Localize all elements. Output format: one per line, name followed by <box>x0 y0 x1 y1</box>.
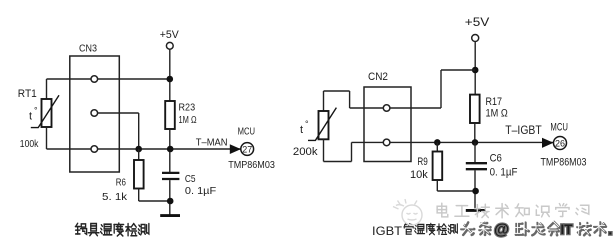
wire R9 top lead <box>436 142 438 151</box>
capacitor C5 <box>162 172 179 174</box>
ground (left) <box>160 214 180 217</box>
resistor R6 <box>134 160 144 189</box>
svg-text:@: @ <box>494 222 509 239</box>
junction T-IGBT node <box>472 139 479 146</box>
resistor R17 <box>470 95 480 123</box>
wire R17 bottom lead <box>474 123 476 142</box>
MCU pin circle 26 <box>554 137 567 150</box>
svg-text:0. 1µF: 0. 1µF <box>490 167 518 179</box>
wire R9 to ground node <box>437 190 475 192</box>
thermistor diagonal stroke (right) <box>308 108 336 141</box>
wire pin2 down to row3 <box>138 113 140 149</box>
svg-text:t: t <box>29 111 32 123</box>
junction +5V node left <box>167 76 174 83</box>
wire row1 left <box>47 78 170 80</box>
pin CN2-2 <box>383 139 390 146</box>
svg-text:MCU: MCU <box>238 126 255 138</box>
wire thermistor top jog <box>324 90 350 92</box>
wire RT1 bottom lead <box>46 127 48 149</box>
wire CN3 pin2 stub <box>94 112 138 114</box>
junction R6 top node <box>135 146 142 153</box>
svg-text:C5: C5 <box>185 173 196 185</box>
wire R6 top lead <box>138 149 140 160</box>
connector CN3 <box>70 56 120 172</box>
capacitor C6 <box>466 162 487 164</box>
MCU pin circle 27 <box>241 143 254 156</box>
pin CN3-2 <box>91 110 98 117</box>
svg-text:CN3: CN3 <box>79 43 97 55</box>
pin CN2-1 <box>383 105 390 112</box>
wire bottom jog <box>324 161 352 163</box>
svg-text:IT: IT <box>561 222 574 237</box>
+5V terminal circle (left) <box>166 42 173 49</box>
junction T-MAN node <box>167 146 174 153</box>
+5V terminal circle (right) <box>472 35 479 42</box>
watermark logo face <box>393 199 422 225</box>
pin CN3-3 <box>91 146 98 153</box>
svg-text:TMP86M03: TMP86M03 <box>228 160 275 171</box>
svg-text:100k: 100k <box>20 138 39 150</box>
wire thermistor top lead <box>323 91 325 111</box>
ground (right) <box>466 209 486 212</box>
svg-text:TMP86M03: TMP86M03 <box>541 156 587 168</box>
svg-text:1M Ω: 1M Ω <box>486 107 508 119</box>
wire C6 top lead <box>474 142 476 163</box>
svg-text:R23: R23 <box>179 102 196 114</box>
svg-text:CN2: CN2 <box>368 71 388 83</box>
svg-text:°: ° <box>34 106 38 116</box>
wire +5V to R17 <box>474 42 476 95</box>
svg-text:R6: R6 <box>116 177 126 189</box>
watermark text line2 (embossed) <box>461 222 474 234</box>
wire row1 right <box>350 107 441 109</box>
resistor R23 <box>165 101 175 129</box>
svg-text:T–MAN: T–MAN <box>196 137 228 149</box>
svg-text:°: ° <box>305 119 309 129</box>
svg-text:1M Ω: 1M Ω <box>179 114 197 126</box>
wire thermistor bottom lead <box>323 139 325 161</box>
svg-text:R9: R9 <box>417 156 427 168</box>
junction R9 top node <box>434 139 441 146</box>
caption: pot temperature detection (CJK) <box>75 223 86 234</box>
connector CN2 <box>364 87 411 162</box>
wire +5V to CN2 branch <box>441 69 475 71</box>
thermistor t (200k) <box>319 111 329 139</box>
arrow T-MAN to MCU <box>230 144 241 154</box>
svg-text:MCU: MCU <box>550 121 568 133</box>
pin CN3-1 <box>91 76 98 83</box>
wire row2 / T-IGBT net <box>352 141 554 143</box>
wire jog down <box>349 91 351 108</box>
wire jog up <box>351 142 353 161</box>
svg-text:.: . <box>608 222 612 239</box>
wire C5 to ground <box>169 180 171 214</box>
svg-text:0. 1µF: 0. 1µF <box>185 185 216 197</box>
svg-text:10k: 10k <box>410 169 428 181</box>
RT1 thermistor diagonal stroke <box>31 95 59 127</box>
svg-text:T–IGBT: T–IGBT <box>505 123 542 137</box>
svg-text:RT1: RT1 <box>18 88 37 100</box>
svg-text:t: t <box>300 124 303 136</box>
wire row3 / T-MAN net <box>47 148 241 150</box>
arrow T-IGBT to MCU <box>542 138 554 148</box>
svg-text:5. 1k: 5. 1k <box>102 191 128 203</box>
wire R9 bottom lead <box>436 180 438 191</box>
svg-text:+5V: +5V <box>465 15 490 29</box>
watermark text line1 (gray CJK) <box>437 203 448 217</box>
wire R6 bottom lead <box>138 189 140 202</box>
junction ground node left <box>167 198 174 205</box>
svg-text:IGBT: IGBT <box>372 224 403 238</box>
wire RT1 top lead <box>46 79 48 99</box>
resistor R9 <box>433 152 443 181</box>
junction ground node right <box>472 188 479 195</box>
junction +5V node right <box>472 67 479 74</box>
wire R6 to ground node <box>139 200 171 202</box>
wire branch down <box>440 70 442 108</box>
svg-text:27: 27 <box>242 144 252 154</box>
wire R23 bottom to C5 <box>169 129 171 173</box>
wire +5V to R23 <box>169 49 171 101</box>
svg-text:C6: C6 <box>490 153 502 165</box>
svg-text:+5V: +5V <box>160 29 180 41</box>
svg-text:26: 26 <box>555 138 565 148</box>
svg-text:200k: 200k <box>293 146 318 158</box>
svg-text:R17: R17 <box>486 96 503 108</box>
wire C6 to ground <box>474 170 476 209</box>
thermistor RT1 <box>42 99 52 127</box>
